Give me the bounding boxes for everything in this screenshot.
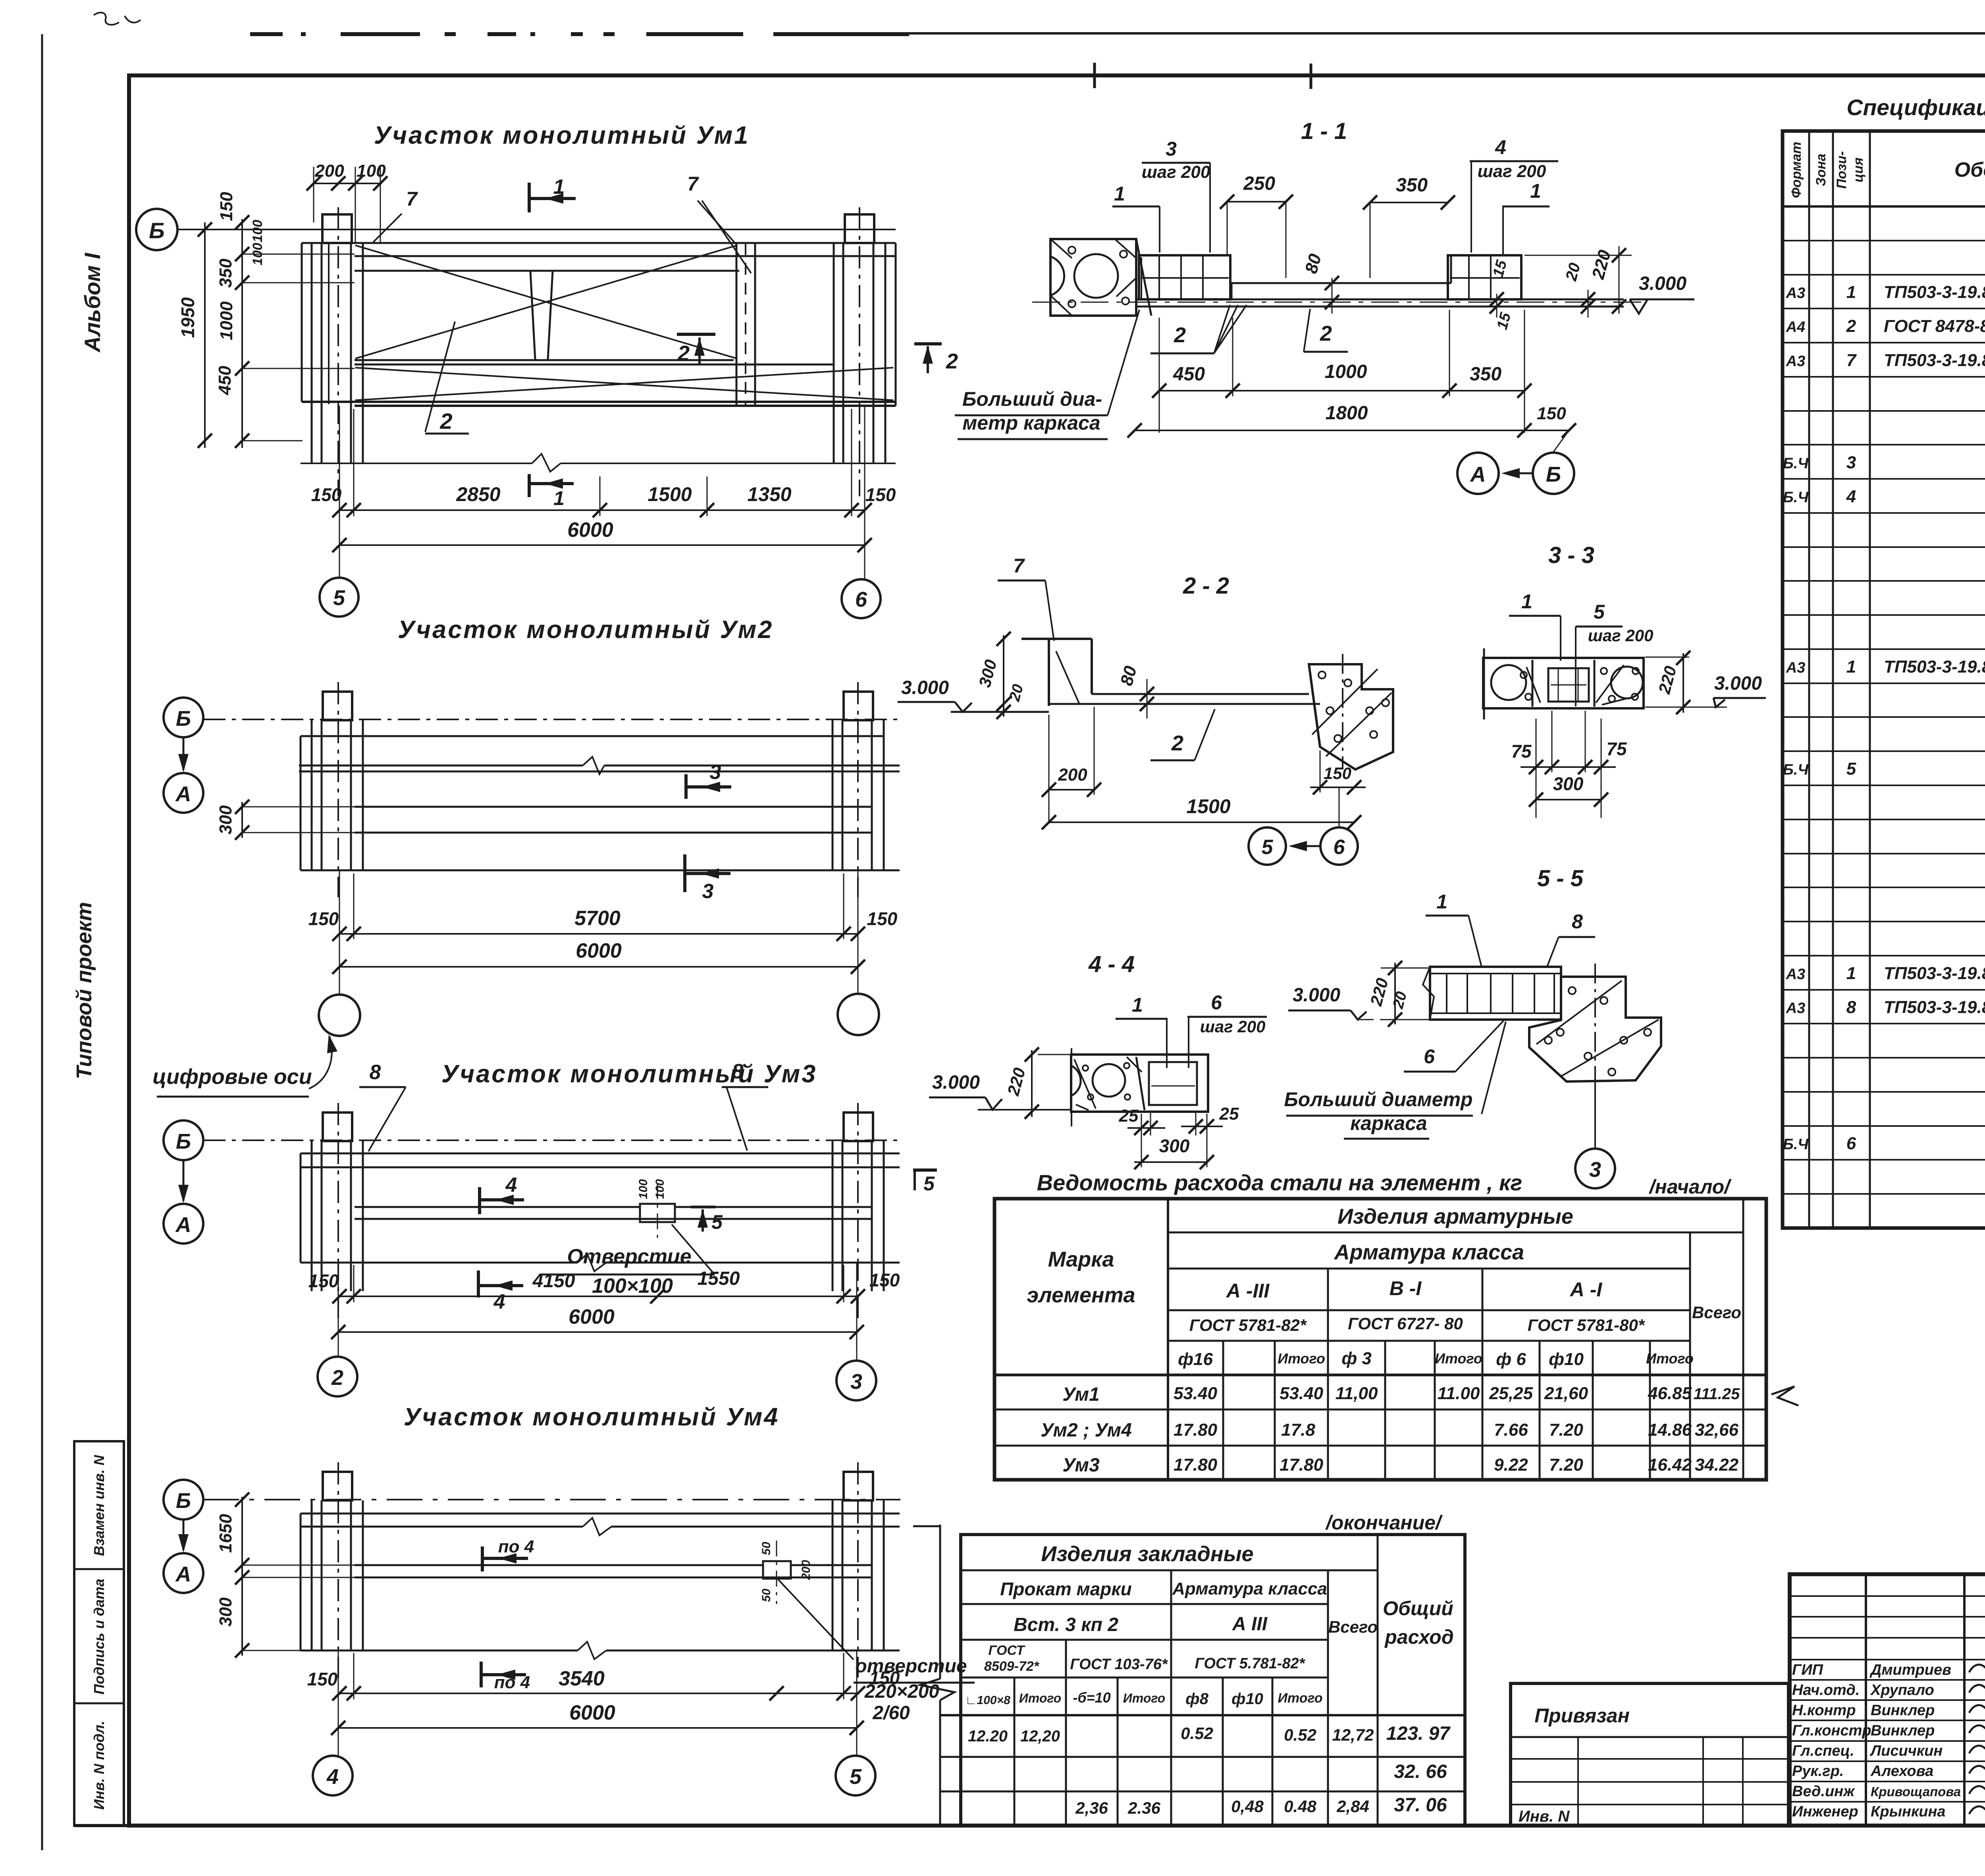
axis circle A Um2 bbox=[164, 773, 203, 813]
svg-text:ция: ция bbox=[1851, 158, 1866, 183]
plan Um1 diagonal braces bottom bbox=[355, 368, 893, 400]
dim line Um1 bottom chain bbox=[339, 509, 865, 511]
section mark 5 Um3 bbox=[691, 1206, 715, 1209]
plan Um4 right column axis bbox=[857, 1462, 859, 1677]
svg-text:шаг 200: шаг 200 bbox=[1588, 626, 1654, 645]
svg-text:Изделия арматурные: Изделия арматурные bbox=[1337, 1205, 1573, 1228]
svg-text:6000: 6000 bbox=[576, 939, 622, 962]
svg-text:Лисичкин: Лисичкин bbox=[1869, 1743, 1943, 1759]
vedomost col Vsego left bbox=[1689, 1232, 1691, 1480]
svg-text:Вст. 3 кп 2: Вст. 3 кп 2 bbox=[1014, 1614, 1118, 1635]
svg-text:3: 3 bbox=[1589, 1158, 1601, 1182]
svg-text:∟100×8: ∟100×8 bbox=[965, 1694, 1010, 1707]
left attachment column table bbox=[74, 1441, 124, 1826]
svg-text:Гл.констр: Гл.констр bbox=[1792, 1722, 1871, 1739]
svg-text:А -I: А -I bbox=[1569, 1278, 1603, 1301]
section 1-1 level dashline bbox=[1032, 302, 1648, 303]
top page edge broken line bbox=[250, 32, 283, 36]
svg-text:6: 6 bbox=[1334, 836, 1345, 859]
dim 150 2-2 bbox=[1310, 787, 1366, 788]
svg-text:1: 1 bbox=[553, 487, 565, 509]
axis circle 5 section 2-2 bbox=[1249, 827, 1286, 865]
svg-text:300: 300 bbox=[1159, 1136, 1190, 1156]
axis circle B section 1-1 bbox=[1533, 453, 1574, 494]
axis circle B Um4 bbox=[164, 1480, 203, 1519]
section mark 1 top Um1 bbox=[528, 183, 531, 212]
svg-text:2: 2 bbox=[677, 341, 690, 365]
svg-text:50: 50 bbox=[760, 1542, 773, 1555]
svg-text:300: 300 bbox=[1553, 773, 1584, 794]
svg-text:5 - 5: 5 - 5 bbox=[1537, 866, 1584, 891]
section mark 1 bottom Um1 bbox=[528, 474, 531, 497]
svg-text:А4: А4 bbox=[1786, 319, 1806, 335]
frame tick mark B bbox=[1310, 64, 1312, 89]
svg-text:ф10: ф10 bbox=[1549, 1350, 1584, 1369]
svg-text:Ум3: Ум3 bbox=[1062, 1455, 1100, 1476]
axis dashdot line Um4 bbox=[203, 1499, 900, 1500]
svg-text:А: А bbox=[175, 1562, 191, 1586]
svg-text:4: 4 bbox=[493, 1290, 505, 1313]
dim line 6000 Um4 bbox=[338, 1727, 857, 1729]
callout 2 bottom Um1 bbox=[425, 322, 455, 432]
dim 220 rotated 5-5 bbox=[1381, 968, 1429, 969]
svg-text:Изделия закладные: Изделия закладные bbox=[1041, 1542, 1253, 1566]
svg-text:8: 8 bbox=[732, 1060, 744, 1083]
svg-text:11,00: 11,00 bbox=[1336, 1384, 1378, 1403]
svg-text:21,60: 21,60 bbox=[1544, 1384, 1588, 1403]
section 3-3 edge extension lines bbox=[1483, 648, 1485, 719]
plan Um1 slab lines bbox=[302, 242, 896, 244]
svg-text:Винклер: Винклер bbox=[1871, 1722, 1935, 1739]
svg-text:4 - 4: 4 - 4 bbox=[1088, 951, 1135, 977]
svg-text:3: 3 bbox=[702, 880, 714, 903]
svg-text:5: 5 bbox=[711, 1211, 723, 1233]
svg-text:1500: 1500 bbox=[648, 483, 692, 505]
svg-text:450: 450 bbox=[1173, 364, 1205, 385]
plan Um2 right column axis bbox=[857, 682, 859, 897]
title block name rows bbox=[1790, 1679, 1985, 1681]
svg-text:75: 75 bbox=[1511, 741, 1532, 762]
dim 220 rotated 4-4 bbox=[1038, 1054, 1071, 1055]
zakladnye header lines bbox=[961, 1569, 1378, 1571]
svg-text:150: 150 bbox=[308, 908, 339, 929]
privyazan rows bbox=[1511, 1758, 1788, 1760]
plan Um2 right column bbox=[832, 720, 834, 870]
svg-text:46.85: 46.85 bbox=[1648, 1384, 1692, 1403]
axis circle 3 section 5-5 bbox=[1575, 1149, 1615, 1188]
section mark 4 bottom Um3 bbox=[477, 1271, 480, 1298]
dim 300 Um4 bbox=[235, 1570, 249, 1585]
plan Um4 left column bbox=[311, 1500, 313, 1650]
svg-text:Инв. N: Инв. N bbox=[1519, 1808, 1570, 1825]
svg-text:по 4: по 4 bbox=[494, 1673, 530, 1692]
axis arrow B to A Um2 bbox=[183, 737, 185, 770]
vedomost bracket mark bbox=[1771, 1386, 1798, 1406]
svg-text:5: 5 bbox=[1594, 601, 1605, 623]
dim 1650 Um4 bbox=[241, 1497, 243, 1582]
section 1-1 right rebar cage bbox=[1448, 255, 1521, 299]
plan Um3 left column axis bbox=[337, 1103, 339, 1318]
plan Um1 ground line with break bbox=[301, 463, 532, 464]
zakladnye column lines bbox=[1170, 1570, 1172, 1826]
plan Um3 left column bbox=[311, 1141, 313, 1291]
svg-text:3.000: 3.000 bbox=[1293, 985, 1340, 1006]
svg-text:ф 3: ф 3 bbox=[1341, 1349, 1372, 1368]
vedomost header lines bbox=[1168, 1232, 1743, 1234]
svg-text:1350: 1350 bbox=[747, 483, 791, 505]
dim line 6000 Um2 bbox=[339, 966, 858, 968]
section 2-2 block axis dashdot bbox=[1342, 654, 1343, 769]
section 4-4 divider slant bbox=[1136, 1057, 1145, 1110]
plan Um3 left column cap bbox=[323, 1112, 352, 1141]
svg-text:Алехова: Алехова bbox=[1870, 1763, 1933, 1780]
svg-text:Б: Б bbox=[176, 1130, 191, 1153]
svg-text:3.000: 3.000 bbox=[932, 1072, 980, 1093]
plan Um4 left column cap bbox=[323, 1472, 352, 1500]
axis circle empty left Um2 bbox=[319, 995, 360, 1036]
svg-text:25,25: 25,25 bbox=[1489, 1384, 1533, 1403]
svg-text:Арматура класса: Арматура класса bbox=[1172, 1579, 1327, 1598]
svg-text:25: 25 bbox=[1119, 1106, 1139, 1126]
svg-text:6: 6 bbox=[1424, 1045, 1435, 1068]
svg-text:4: 4 bbox=[1846, 487, 1856, 506]
axis dashdot line Um3 bbox=[203, 1139, 900, 1141]
svg-text:Б.Ч: Б.Ч bbox=[1783, 455, 1809, 472]
svg-text:5: 5 bbox=[850, 1765, 862, 1789]
vedomost class columns bbox=[1327, 1269, 1329, 1480]
svg-text:8: 8 bbox=[1846, 998, 1856, 1017]
svg-text:Итого: Итого bbox=[1646, 1350, 1694, 1367]
svg-text:8: 8 bbox=[370, 1061, 381, 1084]
zakladnye frame bbox=[961, 1535, 1465, 1826]
svg-text:5: 5 bbox=[1262, 836, 1274, 859]
svg-text:350: 350 bbox=[1470, 364, 1501, 385]
svg-text:Участок монолитный Ум4: Участок монолитный Ум4 bbox=[404, 1403, 779, 1431]
svg-text:9.22: 9.22 bbox=[1494, 1455, 1528, 1475]
svg-text:3540: 3540 bbox=[559, 1667, 605, 1690]
section 3-3 rebar cage bbox=[1548, 668, 1589, 702]
section 2-2 slab bbox=[1092, 693, 1309, 695]
section 2-2 post bbox=[1048, 639, 1050, 706]
svg-text:ф 6: ф 6 bbox=[1496, 1350, 1526, 1369]
dim 150 1-1 bbox=[1524, 430, 1569, 431]
svg-text:17.80: 17.80 bbox=[1174, 1455, 1218, 1475]
svg-text:1500: 1500 bbox=[1186, 795, 1230, 817]
svg-text:ГОСТ 103-76*: ГОСТ 103-76* bbox=[1070, 1656, 1168, 1673]
section mark 2 arrow mid Um1 bbox=[677, 333, 715, 336]
svg-text:2,84: 2,84 bbox=[1336, 1797, 1369, 1816]
svg-text:5: 5 bbox=[1846, 759, 1856, 779]
svg-text:150: 150 bbox=[1324, 764, 1351, 783]
axis circle 2 Um3 bbox=[318, 1357, 357, 1396]
svg-text:0.48: 0.48 bbox=[1284, 1797, 1316, 1816]
plan Um3 opening 100x100 bbox=[640, 1204, 675, 1222]
plan Um4 left column axis bbox=[337, 1462, 339, 1677]
svg-text:Инженер: Инженер bbox=[1792, 1803, 1858, 1820]
svg-text:14.86: 14.86 bbox=[1648, 1420, 1692, 1440]
svg-text:Зона: Зона bbox=[1813, 154, 1829, 186]
svg-text:7: 7 bbox=[1846, 351, 1857, 370]
section mark po4 top Um4 bbox=[481, 1546, 484, 1571]
svg-text:6: 6 bbox=[1211, 991, 1222, 1014]
svg-text:6000: 6000 bbox=[569, 1305, 615, 1328]
title block top thin rows bbox=[1790, 1595, 1985, 1597]
svg-text:Всего: Всего bbox=[1328, 1618, 1378, 1636]
plan Um2 left column cap bbox=[323, 692, 352, 720]
svg-text:1: 1 bbox=[1436, 891, 1447, 913]
svg-text:3: 3 bbox=[850, 1370, 862, 1394]
title block frame bbox=[1790, 1574, 1985, 1826]
svg-text:Формат: Формат bbox=[1789, 142, 1804, 198]
svg-text:350: 350 bbox=[216, 258, 235, 288]
svg-text:Дмитриев: Дмитриев bbox=[1869, 1662, 1951, 1678]
svg-text:Итого: Итого bbox=[1278, 1691, 1322, 1706]
svg-text:6: 6 bbox=[855, 588, 867, 611]
section 2-2 level line bbox=[951, 711, 1049, 713]
privyazan columns bbox=[1577, 1737, 1579, 1826]
svg-text:/окончание/: /окончание/ bbox=[1325, 1512, 1443, 1534]
plan Um2 left column bbox=[311, 720, 313, 870]
svg-text:А -III: А -III bbox=[1226, 1280, 1270, 1302]
arrow between A B 1-1 bbox=[1505, 472, 1533, 474]
svg-text:Хрупало: Хрупало bbox=[1870, 1682, 1934, 1699]
svg-text:Ум1: Ум1 bbox=[1062, 1384, 1100, 1405]
svg-text:1: 1 bbox=[553, 175, 565, 199]
svg-text:Вед.инж: Вед.инж bbox=[1792, 1783, 1855, 1800]
dim line 5700 Um2 bbox=[339, 933, 858, 935]
section mark 4 top Um3 bbox=[478, 1187, 481, 1214]
svg-text:Участок монолитный Ум3: Участок монолитный Ум3 bbox=[441, 1060, 817, 1088]
plan Um1 right column bbox=[833, 243, 835, 463]
svg-text:1: 1 bbox=[1846, 657, 1856, 677]
svg-text:150: 150 bbox=[869, 1270, 900, 1290]
svg-text:8509-72*: 8509-72* bbox=[984, 1659, 1040, 1674]
section 1-1 left slanted edge bbox=[1136, 239, 1151, 316]
svg-text:ф10: ф10 bbox=[1231, 1690, 1263, 1708]
plan Um4 right column bbox=[832, 1500, 834, 1650]
svg-text:Ведомость расхода стали н: Ведомость расхода стали на элемент , кг bbox=[1037, 1170, 1522, 1195]
svg-text:Больший диаметр: Больший диаметр bbox=[1284, 1088, 1472, 1111]
plan Um1 right column axis dashdot bbox=[859, 207, 860, 496]
axis dashdot line Um2 bbox=[203, 719, 900, 720]
section 1-1 hollow core slab bbox=[1050, 239, 1136, 316]
svg-text:шаг 200: шаг 200 bbox=[1478, 162, 1546, 181]
svg-text:1: 1 bbox=[1530, 180, 1541, 202]
svg-text:Нач.отд.: Нач.отд. bbox=[1792, 1682, 1860, 1699]
svg-text:Н.контр: Н.контр bbox=[1792, 1702, 1856, 1719]
svg-text:250: 250 bbox=[1243, 173, 1275, 194]
section 4-4 hatch dots bbox=[1074, 1059, 1096, 1109]
svg-text:ТП503-3-19.87– КЖИ: 270: ТП503-3-19.87– КЖИ: 270 bbox=[1884, 657, 1985, 677]
svg-text:0,48: 0,48 bbox=[1231, 1797, 1264, 1816]
svg-text:150: 150 bbox=[308, 1271, 339, 1291]
svg-text:Итого: Итого bbox=[1123, 1691, 1165, 1705]
svg-text:11.00: 11.00 bbox=[1438, 1384, 1480, 1403]
dim chain 450 1000 350 bbox=[1159, 390, 1524, 391]
plan Um1 left column axis dashdot bbox=[337, 207, 339, 496]
svg-text:Подпись и дата: Подпись и дата bbox=[91, 1579, 107, 1695]
svg-text:53.40: 53.40 bbox=[1174, 1384, 1218, 1403]
svg-text:2850: 2850 bbox=[456, 483, 500, 505]
section mark 3 top Um2 bbox=[684, 774, 688, 799]
svg-text:Итого: Итого bbox=[1278, 1350, 1325, 1367]
svg-text:17.8: 17.8 bbox=[1281, 1420, 1315, 1440]
section mark po4 bottom Um4 bbox=[480, 1662, 483, 1687]
svg-text:1: 1 bbox=[1521, 590, 1532, 613]
svg-text:Прокат марки: Прокат марки bbox=[1000, 1579, 1132, 1599]
svg-text:4: 4 bbox=[505, 1174, 517, 1197]
svg-text:А3: А3 bbox=[1786, 1000, 1806, 1017]
svg-text:Инв. N подл.: Инв. N подл. bbox=[91, 1721, 107, 1810]
svg-text:150: 150 bbox=[311, 484, 342, 505]
svg-text:шаг 200: шаг 200 bbox=[1142, 162, 1210, 182]
svg-text:Б: Б bbox=[176, 707, 191, 731]
svg-text:53.40: 53.40 bbox=[1280, 1384, 1324, 1403]
section 4-4 slab bbox=[1071, 1055, 1208, 1112]
svg-text:6000: 6000 bbox=[569, 1701, 615, 1724]
dim 1500 2-2 bbox=[1049, 821, 1354, 823]
plan Um1 joint jog lines bbox=[530, 272, 535, 359]
svg-text:шаг 200: шаг 200 bbox=[1200, 1017, 1266, 1036]
svg-text:Типовой проект: Типовой проект bbox=[72, 902, 96, 1080]
spec table header row line bbox=[1783, 205, 1985, 208]
svg-text:34.22: 34.22 bbox=[1695, 1455, 1739, 1475]
svg-text:16.42: 16.42 bbox=[1648, 1455, 1692, 1475]
svg-text:2: 2 bbox=[1171, 731, 1183, 755]
title block verticals bbox=[1865, 1574, 1867, 1826]
svg-text:ф8: ф8 bbox=[1185, 1690, 1208, 1708]
plan Um3 right column axis bbox=[857, 1103, 859, 1318]
vedomost data row lines bbox=[994, 1374, 1766, 1377]
svg-text:Б.Ч: Б.Ч bbox=[1783, 762, 1809, 778]
section mark 5 left of vedomost bbox=[913, 1168, 937, 1172]
svg-text:ГОСТ: ГОСТ bbox=[989, 1643, 1026, 1658]
svg-text:Больший диа-: Больший диа- bbox=[962, 388, 1102, 410]
svg-text:25: 25 bbox=[1219, 1104, 1239, 1124]
svg-text:5: 5 bbox=[333, 586, 345, 610]
svg-text:2.36: 2.36 bbox=[1127, 1799, 1160, 1817]
svg-text:Кривощапова: Кривощапова bbox=[1871, 1784, 1961, 1799]
svg-text:1 - 1: 1 - 1 bbox=[1301, 118, 1347, 144]
dim 200 100 above column bbox=[314, 183, 382, 184]
svg-text:Итого: Итого bbox=[1435, 1350, 1482, 1367]
svg-text:2: 2 bbox=[439, 409, 452, 434]
svg-text:100: 100 bbox=[653, 1179, 667, 1199]
svg-text:100: 100 bbox=[250, 243, 265, 266]
vedomost col Marka bbox=[1167, 1199, 1169, 1480]
svg-text:2: 2 bbox=[1320, 322, 1332, 345]
svg-text:50: 50 bbox=[760, 1589, 773, 1602]
svg-text:3 - 3: 3 - 3 bbox=[1548, 542, 1594, 568]
svg-text:7: 7 bbox=[406, 188, 418, 210]
svg-text:Общий: Общий bbox=[1383, 1597, 1453, 1620]
axis circle 5 Um1 bbox=[320, 578, 358, 617]
svg-text:3: 3 bbox=[1166, 138, 1177, 160]
svg-text:4: 4 bbox=[326, 1765, 339, 1789]
svg-text:А: А bbox=[175, 782, 191, 806]
dim line 6000 Um1 bbox=[339, 544, 865, 546]
svg-text:3.000: 3.000 bbox=[901, 677, 949, 698]
svg-text:150: 150 bbox=[217, 192, 236, 221]
spec table frame bbox=[1783, 131, 1985, 1228]
svg-text:150: 150 bbox=[869, 1668, 900, 1688]
plan Um2 right column cap bbox=[844, 692, 873, 720]
section 1-1 bottom plate bbox=[1136, 299, 1624, 301]
plan Um1 left column bbox=[311, 243, 313, 463]
svg-text:2,36: 2,36 bbox=[1075, 1799, 1108, 1817]
svg-text:Б: Б bbox=[176, 1489, 191, 1513]
dim 300 3-3 bbox=[1536, 799, 1601, 800]
svg-text:ГОСТ 8478-81: ГОСТ 8478-81 bbox=[1884, 316, 1985, 336]
svg-text:37. 06: 37. 06 bbox=[1394, 1795, 1447, 1816]
svg-text:Б.Ч: Б.Ч bbox=[1783, 489, 1809, 506]
svg-text:1950: 1950 bbox=[177, 297, 198, 338]
svg-text:цифровые оси: цифровые оси bbox=[152, 1065, 312, 1089]
svg-text:12.20: 12.20 bbox=[968, 1728, 1008, 1745]
plan Um1 left column cap bbox=[322, 214, 352, 243]
svg-text:100: 100 bbox=[357, 161, 386, 181]
axis arrow B to A Um4 bbox=[183, 1519, 185, 1550]
svg-text:Итого: Итого bbox=[1019, 1691, 1061, 1705]
svg-text:100: 100 bbox=[637, 1179, 650, 1199]
plan Um1 right column cap bbox=[845, 214, 874, 243]
svg-text:150: 150 bbox=[307, 1669, 338, 1689]
axis circle A Um3 bbox=[164, 1204, 203, 1244]
svg-text:А3: А3 bbox=[1786, 285, 1806, 301]
dim 200 2-2 bbox=[1049, 789, 1094, 791]
svg-text:7.20: 7.20 bbox=[1549, 1420, 1583, 1440]
section 5-5 ladder strip bbox=[1430, 967, 1561, 1020]
axis circle A section 1-1 bbox=[1457, 453, 1499, 494]
section 3-3 hatch and dots bbox=[1526, 667, 1540, 703]
svg-text:по 4: по 4 bbox=[498, 1537, 534, 1556]
svg-text:1: 1 bbox=[1132, 994, 1143, 1016]
svg-text:111.25: 111.25 bbox=[1694, 1385, 1740, 1403]
spec table column lines bbox=[1808, 131, 1810, 1228]
svg-text:0.52: 0.52 bbox=[1284, 1726, 1316, 1744]
svg-text:3: 3 bbox=[710, 761, 721, 784]
svg-text:ТП503-3-19.87 – КЖИ: 270: ТП503-3-19.87 – КЖИ: 270 bbox=[1884, 282, 1985, 302]
axis circle 5b Um4 bbox=[836, 1756, 875, 1795]
section 3-3 slab bbox=[1483, 658, 1644, 708]
svg-text:Крынкина: Крынкина bbox=[1871, 1803, 1946, 1820]
dim 220 rotated 3-3 bbox=[1645, 657, 1689, 658]
svg-text:5: 5 bbox=[923, 1172, 935, 1195]
svg-text:Спецификация участков моноли: Спецификация участков монолитных Ум1...У… bbox=[1846, 95, 1985, 120]
plan Um2 slab lines bbox=[301, 735, 884, 737]
svg-text:расход: расход bbox=[1384, 1626, 1454, 1648]
svg-text:200: 200 bbox=[314, 161, 344, 181]
section 1-1 mid slab top bbox=[1231, 282, 1451, 284]
svg-text:2: 2 bbox=[1174, 323, 1186, 347]
section 4-4 left edge line bbox=[1071, 1048, 1072, 1126]
axis circle 3 Um3 bbox=[836, 1361, 876, 1400]
svg-text:3.000: 3.000 bbox=[1639, 273, 1686, 294]
svg-text:17.80: 17.80 bbox=[1280, 1455, 1324, 1475]
privyazan header line bbox=[1511, 1736, 1788, 1738]
svg-text:4150: 4150 bbox=[532, 1271, 575, 1292]
plan Um1 closure strip verticals bbox=[736, 243, 738, 406]
svg-text:6000: 6000 bbox=[567, 519, 613, 542]
svg-text:В -I: В -I bbox=[1389, 1277, 1422, 1300]
plan Um2 left column axis bbox=[337, 682, 339, 897]
svg-text:А3: А3 bbox=[1786, 966, 1806, 983]
svg-text:1: 1 bbox=[1846, 964, 1856, 983]
svg-text:2 - 2: 2 - 2 bbox=[1183, 573, 1229, 599]
axis circle 4 Um4 bbox=[313, 1756, 353, 1795]
axis circle 6 Um1 bbox=[842, 579, 881, 618]
svg-text:А3: А3 bbox=[1786, 659, 1806, 676]
